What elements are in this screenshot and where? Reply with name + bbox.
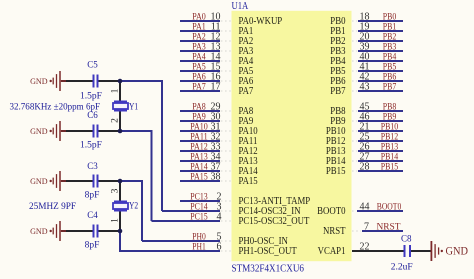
svg-text:PA1: PA1 xyxy=(192,22,206,32)
svg-text:PA2: PA2 xyxy=(192,32,206,42)
svg-text:PB6: PB6 xyxy=(383,72,397,82)
svg-text:PA15: PA15 xyxy=(190,172,208,182)
svg-text:VCAP1: VCAP1 xyxy=(318,246,346,257)
svg-text:PB8: PB8 xyxy=(383,102,397,112)
svg-text:GND: GND xyxy=(30,176,48,186)
svg-text:PB7: PB7 xyxy=(383,82,397,92)
svg-text:PA8: PA8 xyxy=(192,102,206,112)
svg-text:U1A: U1A xyxy=(232,1,249,12)
svg-text:44: 44 xyxy=(360,202,370,213)
svg-text:PC14: PC14 xyxy=(190,202,208,212)
svg-text:PA12: PA12 xyxy=(190,142,208,152)
svg-text:PB12: PB12 xyxy=(381,132,399,142)
svg-text:NRST: NRST xyxy=(377,222,401,232)
svg-text:PA6: PA6 xyxy=(192,72,206,82)
svg-text:PB4: PB4 xyxy=(383,52,397,62)
svg-text:PB13: PB13 xyxy=(381,142,399,152)
svg-text:C8: C8 xyxy=(401,233,412,243)
svg-text:PH1-OSC_OUT: PH1-OSC_OUT xyxy=(239,246,297,257)
svg-text:PA7: PA7 xyxy=(192,82,206,92)
svg-text:PA11: PA11 xyxy=(190,132,208,142)
svg-text:PA4: PA4 xyxy=(192,52,206,62)
svg-text:GND: GND xyxy=(30,126,48,136)
svg-text:PA5: PA5 xyxy=(192,62,206,72)
svg-text:BOOT0: BOOT0 xyxy=(377,202,402,212)
svg-text:43: 43 xyxy=(360,82,370,93)
svg-text:BOOT0: BOOT0 xyxy=(317,206,345,217)
svg-text:PB9: PB9 xyxy=(383,112,397,122)
svg-text:GND: GND xyxy=(30,76,48,86)
svg-text:Y1: Y1 xyxy=(129,102,138,112)
svg-text:PA3: PA3 xyxy=(192,42,206,52)
svg-text:25MHZ 9PF: 25MHZ 9PF xyxy=(29,202,76,212)
svg-text:C4: C4 xyxy=(87,210,98,220)
svg-text:PA13: PA13 xyxy=(190,152,208,162)
svg-text:PA9: PA9 xyxy=(192,112,206,122)
svg-text:2: 2 xyxy=(111,118,121,123)
svg-text:38: 38 xyxy=(211,172,221,183)
svg-text:NRST: NRST xyxy=(323,226,346,237)
svg-text:PC13: PC13 xyxy=(190,192,208,202)
svg-text:4: 4 xyxy=(217,212,222,223)
svg-text:6: 6 xyxy=(217,242,222,253)
svg-text:C3: C3 xyxy=(87,161,98,171)
svg-text:PA15: PA15 xyxy=(239,176,258,187)
svg-text:PH1: PH1 xyxy=(192,242,206,252)
svg-text:PB15: PB15 xyxy=(326,166,346,177)
svg-text:C5: C5 xyxy=(87,60,98,70)
svg-text:8pF: 8pF xyxy=(85,241,100,251)
svg-text:PB5: PB5 xyxy=(383,62,397,72)
svg-text:1.5pF: 1.5pF xyxy=(80,140,102,150)
svg-text:C6: C6 xyxy=(87,110,98,120)
svg-text:PB0: PB0 xyxy=(383,12,397,22)
svg-text:PB3: PB3 xyxy=(383,42,397,52)
svg-text:17: 17 xyxy=(211,82,221,93)
svg-text:PH0: PH0 xyxy=(192,232,206,242)
svg-text:Y2: Y2 xyxy=(129,202,138,212)
svg-text:PA10: PA10 xyxy=(190,122,208,132)
svg-text:PA14: PA14 xyxy=(190,162,208,172)
svg-text:PB15: PB15 xyxy=(381,162,399,172)
svg-text:22: 22 xyxy=(360,242,370,253)
svg-text:PB10: PB10 xyxy=(381,122,399,132)
svg-text:PC15-OSC32_OUT: PC15-OSC32_OUT xyxy=(239,216,310,227)
svg-text:PB7: PB7 xyxy=(330,86,345,97)
svg-text:PB14: PB14 xyxy=(381,152,399,162)
svg-text:STM32F4X1CXU6: STM32F4X1CXU6 xyxy=(232,263,305,274)
svg-text:PC15: PC15 xyxy=(190,212,208,222)
svg-text:GND: GND xyxy=(446,245,469,257)
svg-text:8pF: 8pF xyxy=(85,191,100,201)
svg-text:PB1: PB1 xyxy=(383,22,397,32)
svg-text:3: 3 xyxy=(111,188,121,193)
svg-text:1: 1 xyxy=(111,218,121,223)
svg-text:PA0: PA0 xyxy=(192,12,206,22)
svg-text:2.2uF: 2.2uF xyxy=(391,262,413,272)
svg-text:1.5pF: 1.5pF xyxy=(80,92,102,102)
svg-text:PA7: PA7 xyxy=(239,86,254,97)
svg-text:PB2: PB2 xyxy=(383,32,397,42)
svg-text:GND: GND xyxy=(30,226,48,236)
svg-text:28: 28 xyxy=(360,162,370,173)
svg-text:7: 7 xyxy=(364,222,369,233)
svg-text:1: 1 xyxy=(111,88,121,93)
